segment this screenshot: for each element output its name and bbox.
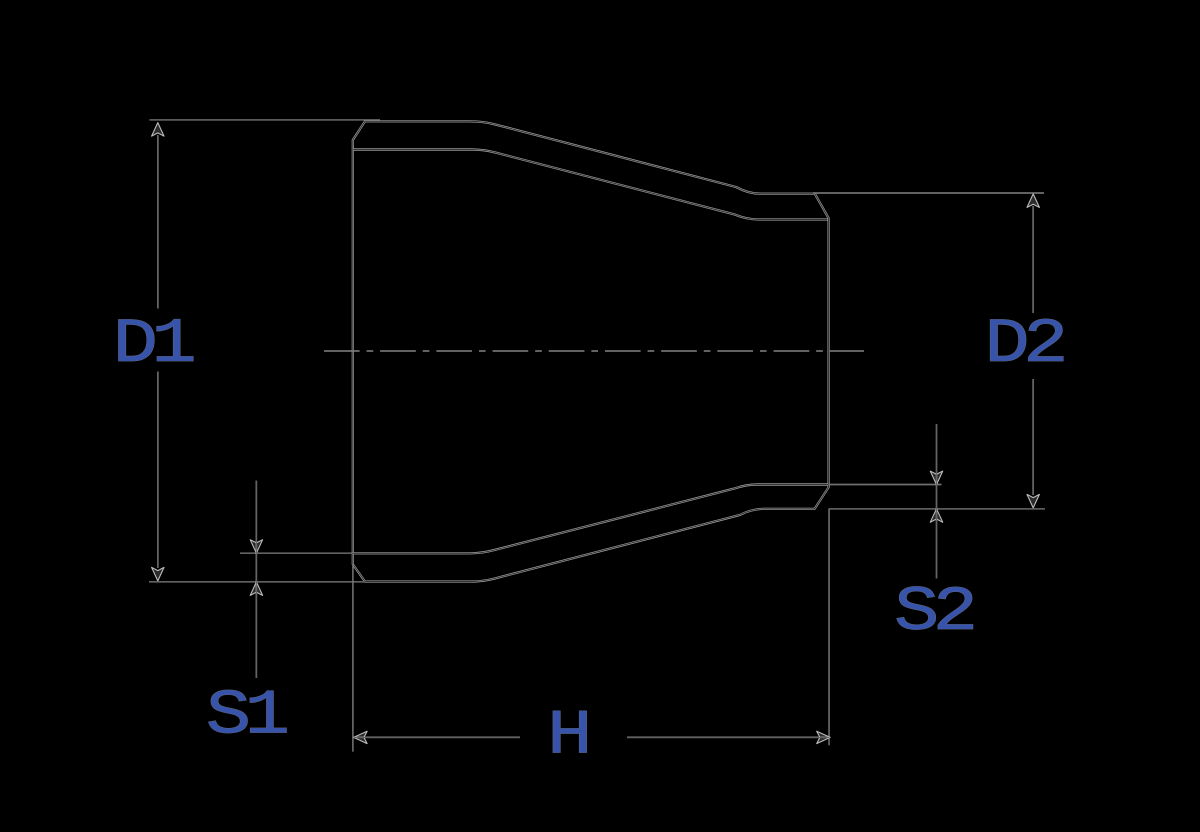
label S2 (894, 576, 973, 648)
S1 dimension line (255, 481, 257, 679)
D1 top arrowhead (152, 123, 164, 137)
D2 top arrowhead (1027, 194, 1039, 208)
label D1 (113, 308, 194, 380)
reducer bore top line (353, 150, 828, 220)
S1 extension line (240, 552, 353, 554)
D2 dimension line (1032, 206, 1034, 495)
label S1 (206, 680, 287, 752)
D1 dimension line (157, 135, 159, 568)
S1 upper arrowhead (250, 540, 262, 554)
svg-text:D2: D2 (984, 308, 1063, 380)
H left arrowhead (354, 731, 368, 743)
D2 bottom extension line (829, 508, 1045, 510)
label D2 (984, 308, 1063, 380)
centerline (324, 350, 864, 352)
reducer outer contour (353, 121, 829, 581)
svg-text:S1: S1 (206, 680, 287, 752)
svg-text:S2: S2 (894, 576, 973, 648)
S1 lower arrowhead (250, 582, 262, 596)
S2 dimension line (936, 424, 938, 579)
D1 top extension line (150, 119, 381, 121)
D1 bottom extension line (149, 581, 365, 583)
H left extension line (352, 564, 354, 752)
H dimension line (354, 736, 830, 738)
D2 top extension line (813, 192, 1044, 194)
H right extension line (828, 509, 830, 745)
D2 bottom arrowhead (1027, 494, 1039, 508)
H right arrowhead (817, 731, 831, 743)
D1 bottom arrowhead (152, 567, 164, 581)
svg-text:H: H (547, 700, 587, 772)
label H (547, 700, 587, 772)
svg-text:D1: D1 (113, 308, 194, 380)
S2 extension line (829, 484, 942, 486)
S2 upper arrowhead (930, 471, 942, 485)
reducer bore bottom line (353, 485, 828, 554)
S2 lower arrowhead (930, 509, 942, 523)
